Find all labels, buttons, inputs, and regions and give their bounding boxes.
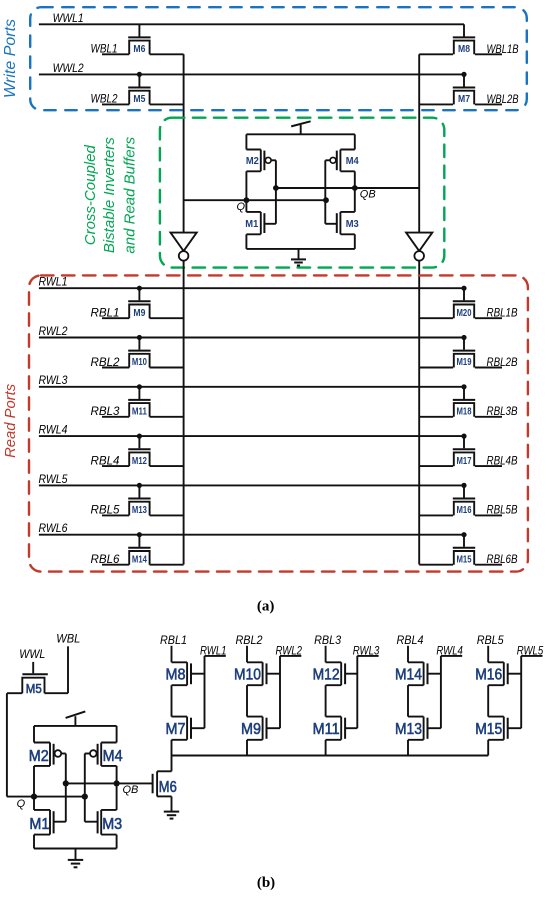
svg-text:M4: M4	[346, 156, 359, 167]
transistor M4	[325, 150, 359, 172]
wire WWL2	[39, 73, 464, 75]
power supply symbol (b)	[66, 711, 86, 726]
svg-text:WBL1B: WBL1B	[487, 44, 519, 56]
svg-text:M19: M19	[457, 357, 472, 368]
transistor M15	[453, 532, 475, 565]
box: Read Ports dashed border	[29, 275, 528, 571]
wire RBL4 stub	[102, 465, 129, 467]
transistor M13 (b)	[395, 717, 441, 740]
wire M3 source leg (b)	[116, 835, 118, 849]
svg-text:QB: QB	[123, 784, 139, 796]
wire M6 drain to left bus	[150, 53, 184, 55]
svg-text:M1: M1	[245, 219, 258, 230]
inverter read buffer (left)	[171, 233, 197, 261]
transistor M1	[245, 212, 276, 234]
svg-text:Write Ports: Write Ports	[2, 19, 19, 98]
svg-text:M15: M15	[475, 721, 502, 738]
wire M17 source to right bus	[419, 465, 453, 467]
wire RBL3B stub	[475, 416, 502, 418]
wire node Q cross-couple	[184, 197, 329, 203]
power supply symbol	[291, 121, 310, 134]
svg-text:M8: M8	[166, 666, 186, 683]
wire M2 source leg (b)	[33, 726, 35, 743]
wire RWL5 stub (b)	[521, 655, 542, 657]
transistor M6	[128, 24, 150, 55]
transistor M16	[453, 483, 475, 516]
wire M8 to M7	[171, 685, 173, 716]
wire RWL5	[39, 484, 464, 486]
svg-text:Q: Q	[17, 798, 26, 810]
svg-text:RBL2: RBL2	[91, 357, 121, 369]
transistor M4 (b)	[85, 743, 123, 766]
svg-text:M9: M9	[133, 308, 145, 319]
wire M10 to M9	[246, 685, 248, 716]
wire M4 source leg	[354, 134, 356, 149]
wire right latch gate column	[324, 160, 326, 224]
transistor M12	[128, 434, 150, 467]
svg-text:M13: M13	[395, 721, 422, 738]
transistor M17	[453, 434, 475, 467]
transistor M19	[453, 335, 475, 368]
wire M14 to M13	[407, 685, 409, 716]
ground symbol	[291, 249, 306, 266]
wire M11 drain to left bus	[150, 416, 184, 418]
wire M5 drain to WBL	[45, 692, 69, 694]
transistor M6 (b)	[153, 771, 177, 796]
wire RWL4 gate column (b)	[440, 656, 442, 728]
svg-text:M11: M11	[132, 407, 147, 418]
svg-text:(a): (a)	[257, 598, 275, 614]
svg-text:RWL4: RWL4	[39, 425, 68, 437]
svg-text:M2: M2	[29, 748, 49, 765]
wire RBL6B stub	[475, 564, 502, 566]
svg-text:RBL2B: RBL2B	[487, 357, 518, 369]
transistor M11	[128, 384, 150, 417]
wire M1 source leg	[245, 234, 247, 249]
svg-text:WWL: WWL	[19, 649, 45, 661]
svg-text:RBL4: RBL4	[91, 455, 120, 467]
transistor M9	[128, 286, 150, 319]
wire WWL1	[39, 23, 464, 25]
wire M16 source to right bus	[419, 514, 453, 516]
svg-text:RBL3: RBL3	[91, 406, 121, 418]
transistor M16 (b)	[475, 662, 521, 685]
svg-text:M18: M18	[457, 407, 472, 418]
wire RWL5 gate column (b)	[520, 656, 522, 728]
inverter read buffer (right)	[406, 233, 432, 261]
wire WBL1B stub	[475, 53, 502, 55]
wire M16 to M15	[487, 685, 489, 716]
svg-text:M9: M9	[241, 721, 261, 738]
transistor M12 (b)	[313, 662, 358, 685]
wire M15 source to bus	[487, 740, 489, 756]
transistor M7 (b)	[166, 717, 205, 740]
wire node QB cross-couple	[273, 185, 419, 191]
wire RWL1	[39, 287, 464, 289]
svg-text:M3: M3	[102, 816, 122, 833]
wire RWL1 gate column (b)	[204, 656, 206, 728]
wire M14 drain to left bus	[150, 564, 184, 566]
wire left inverter drain column (node Q)	[245, 171, 247, 212]
wire M18 source to right bus	[419, 416, 453, 418]
wire M12 drain to left bus	[150, 465, 184, 467]
wire left inverter drain column Q (b)	[33, 766, 35, 810]
transistor M5	[22, 662, 48, 696]
wire M6 source to ground	[171, 796, 173, 811]
svg-text:M16: M16	[475, 666, 502, 683]
wire RBL6 stub	[102, 564, 129, 566]
svg-text:M17: M17	[457, 456, 472, 467]
svg-text:M12: M12	[313, 666, 340, 683]
svg-text:M6: M6	[159, 779, 177, 796]
wire M19 source to right bus	[419, 367, 453, 369]
wire RWL6	[39, 534, 464, 536]
svg-text:RBL5: RBL5	[477, 635, 505, 647]
wire RBL2 (b)	[246, 646, 248, 663]
svg-text:Bistable Inverters: Bistable Inverters	[101, 137, 118, 253]
ground symbol (M6)	[164, 812, 179, 819]
transistor M2	[246, 150, 276, 172]
wire RBL1 stub	[102, 317, 129, 319]
wire right inverter drain column QB (b)	[116, 766, 118, 810]
svg-text:RBL6B: RBL6B	[487, 554, 518, 566]
svg-text:Read Ports: Read Ports	[3, 383, 19, 458]
svg-text:WBL2: WBL2	[91, 94, 119, 106]
box: Write Ports dashed border	[30, 7, 527, 110]
wire M9 source to bus	[246, 740, 248, 756]
svg-text:(b): (b)	[257, 875, 275, 891]
transistor M14	[128, 532, 150, 565]
svg-text:RBL4B: RBL4B	[487, 455, 518, 467]
svg-text:M7: M7	[458, 94, 470, 105]
transistor M20	[453, 286, 475, 319]
svg-text:M12: M12	[132, 456, 147, 467]
transistor M7	[453, 72, 475, 105]
wire node Q (b)	[7, 794, 88, 800]
transistor M9 (b)	[241, 717, 280, 740]
svg-text:M10: M10	[234, 666, 261, 683]
wire VDD rail (b)	[34, 725, 117, 727]
wire RBL5 stub	[102, 514, 129, 516]
svg-text:M5: M5	[26, 682, 42, 696]
svg-text:and Read Buffers: and Read Buffers	[122, 136, 139, 253]
transistor M15 (b)	[475, 717, 521, 740]
wire RWL3	[39, 386, 464, 388]
svg-text:M14: M14	[395, 666, 422, 683]
transistor M3	[325, 212, 359, 234]
transistor M5	[128, 72, 150, 105]
wire right latch gate column (b)	[84, 754, 86, 822]
wire right storage bus (QB column)	[418, 54, 420, 232]
transistor M1 (b)	[29, 810, 65, 835]
wire M7 source to right bus	[419, 103, 453, 105]
wire RWL4	[39, 435, 464, 437]
wire VDD rail	[246, 133, 354, 135]
svg-text:RBL1: RBL1	[91, 308, 120, 320]
wire M3 source leg	[354, 234, 356, 249]
svg-text:RWL2: RWL2	[39, 326, 69, 338]
wire RBL2 stub	[102, 367, 129, 369]
svg-text:M11: M11	[313, 721, 340, 738]
transistor M11 (b)	[313, 717, 358, 740]
wire RBL4 (b)	[407, 646, 409, 663]
svg-text:WBL2B: WBL2B	[487, 94, 519, 106]
svg-text:RWL1: RWL1	[39, 277, 68, 289]
svg-text:M20: M20	[457, 308, 472, 319]
svg-text:RBL1B: RBL1B	[487, 308, 518, 320]
wire RBL1B stub	[475, 317, 502, 319]
wire M12 to M11	[325, 685, 327, 716]
wire M20 source to right bus	[419, 317, 453, 319]
svg-text:RWL3: RWL3	[39, 375, 69, 387]
wire M5 drain to left bus	[150, 103, 184, 105]
wire right inverter drain column (node QB)	[354, 171, 356, 212]
wire M10 drain to left bus	[150, 367, 184, 369]
wire M6 drain up to read bus	[171, 756, 173, 772]
wire M9 drain to left bus	[150, 317, 184, 319]
wire RBL3 stub	[102, 416, 129, 418]
transistor M14 (b)	[395, 662, 441, 685]
svg-text:RBL2: RBL2	[236, 635, 264, 647]
wire WBL1 stub	[102, 53, 129, 55]
wire left storage bus (Q column)	[183, 54, 185, 232]
svg-text:M8: M8	[458, 44, 470, 55]
wire M15 source to right bus	[419, 564, 453, 566]
wire read source bus (b)	[172, 755, 489, 757]
wire M13 drain to left bus	[150, 514, 184, 516]
wire M7 source to bus	[171, 740, 173, 756]
svg-text:WWL1: WWL1	[53, 13, 84, 25]
svg-text:M13: M13	[132, 505, 147, 516]
transistor M8 (b)	[166, 662, 205, 685]
wire M11 source to bus	[325, 740, 327, 756]
wire RBL3 (b)	[325, 646, 327, 663]
svg-text:M6: M6	[133, 44, 145, 55]
svg-text:WWL2: WWL2	[53, 63, 85, 75]
svg-text:QB: QB	[360, 189, 376, 201]
wire WBL2 stub	[102, 103, 129, 105]
wire RWL3 gate column (b)	[356, 656, 358, 728]
wire M4 source leg (b)	[116, 726, 118, 743]
svg-text:M16: M16	[457, 505, 472, 516]
svg-text:RWL5: RWL5	[39, 474, 69, 486]
svg-text:RBL1: RBL1	[160, 635, 187, 647]
transistor M3 (b)	[85, 810, 122, 835]
transistor M10 (b)	[234, 662, 280, 685]
svg-text:Cross-Coupled: Cross-Coupled	[82, 145, 99, 246]
wire node QB to M6 gate	[63, 780, 152, 786]
wire left latch gate column (b)	[65, 754, 67, 822]
box: Cross-Coupled Bistable Inverters and Read Buffers dashed border	[160, 118, 444, 268]
wire left latch gate column	[275, 160, 277, 224]
wire WBL2B stub	[475, 103, 502, 105]
svg-text:M2: M2	[246, 156, 259, 167]
wire M2 source leg	[245, 134, 247, 149]
transistor M2 (b)	[29, 743, 66, 766]
svg-text:M14: M14	[132, 554, 147, 565]
svg-text:M10: M10	[132, 357, 147, 368]
transistor M8	[453, 24, 475, 55]
svg-text:RBL3B: RBL3B	[487, 406, 518, 418]
wire left column down to node Q	[6, 693, 8, 796]
wire RWL4 stub (b)	[441, 655, 462, 657]
svg-text:WBL1: WBL1	[91, 44, 118, 56]
wire RWL2 stub (b)	[280, 655, 301, 657]
wire ground rail (b)	[34, 848, 117, 850]
wire RBL2B stub	[475, 367, 502, 369]
wire M8 source to right bus	[419, 53, 453, 55]
transistor M13	[128, 483, 150, 516]
wire M5 source to left column	[7, 692, 22, 694]
transistor M18	[453, 384, 475, 417]
svg-text:RBL5B: RBL5B	[487, 505, 518, 517]
wire RBL5 (b)	[487, 646, 489, 663]
transistor M10	[128, 335, 150, 368]
svg-text:M15: M15	[457, 554, 472, 565]
svg-text:Q: Q	[236, 201, 245, 213]
svg-text:WBL: WBL	[56, 633, 80, 645]
wire M13 source to bus	[407, 740, 409, 756]
svg-text:M5: M5	[133, 94, 145, 105]
wire right read bus	[418, 261, 420, 565]
wire RWL2 gate column (b)	[279, 656, 281, 728]
svg-text:RBL4: RBL4	[397, 635, 424, 647]
wire RBL4B stub	[475, 465, 502, 467]
wire left read bus	[183, 261, 185, 565]
svg-text:RBL5: RBL5	[91, 505, 121, 517]
svg-text:M7: M7	[166, 721, 186, 738]
svg-text:RBL6: RBL6	[91, 554, 121, 566]
svg-text:M3: M3	[346, 219, 359, 230]
wire ground rail	[246, 248, 354, 250]
svg-text:RWL6: RWL6	[39, 523, 69, 535]
wire RBL5B stub	[475, 514, 502, 516]
wire WBL	[67, 646, 69, 693]
svg-text:RBL3: RBL3	[314, 635, 342, 647]
wire RWL1 stub (b)	[205, 655, 226, 657]
wire RWL2	[39, 337, 464, 339]
wire M1 source leg (b)	[33, 835, 35, 849]
wire RBL1 (b)	[171, 646, 173, 663]
svg-text:M1: M1	[29, 816, 49, 833]
wire RWL3 stub (b)	[357, 655, 378, 657]
svg-text:M4: M4	[103, 748, 123, 765]
ground symbol (b latch)	[68, 849, 83, 868]
